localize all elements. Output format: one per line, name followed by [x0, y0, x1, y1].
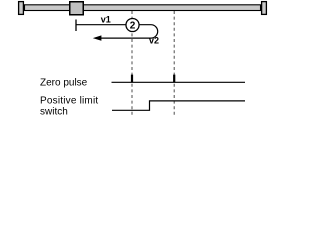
homing method circle 2 — [126, 18, 139, 31]
svg-text:v2: v2 — [149, 36, 159, 46]
svg-text:2: 2 — [130, 21, 136, 32]
start position tick — [75, 20, 77, 32]
right end stop — [262, 2, 267, 15]
dashed reference line D2 — [173, 11, 175, 116]
svg-text:switch: switch — [40, 107, 68, 118]
svg-text:Positive limit: Positive limit — [40, 96, 98, 107]
svg-text:Zero pulse: Zero pulse — [40, 77, 88, 88]
slider block — [70, 2, 84, 15]
positive limit switch trace with step — [112, 101, 245, 110]
arrowhead — [93, 35, 102, 40]
dashed reference line D1 — [131, 11, 133, 116]
svg-text:v1: v1 — [101, 15, 111, 25]
motion path with u-turn loop — [76, 25, 158, 38]
zero pulse trace — [112, 81, 246, 83]
zero pulse tick 2 — [173, 75, 175, 83]
zero pulse tick 1 — [131, 75, 133, 83]
left end stop — [19, 2, 24, 15]
axis rail — [25, 5, 261, 11]
